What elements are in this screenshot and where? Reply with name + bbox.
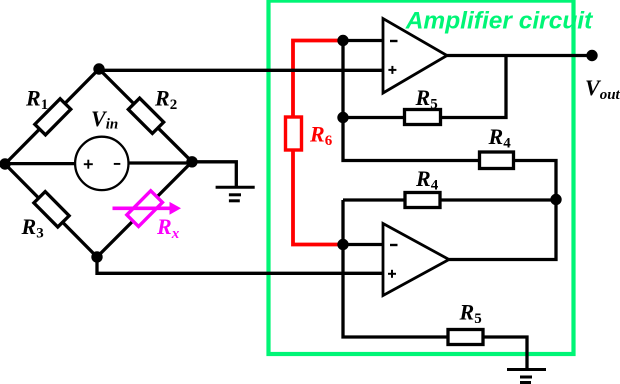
wire: lower R4 run (343, 198, 556, 201)
amplifier circuit box (green) (269, 1, 574, 354)
resistor R4 (upper) (480, 152, 514, 169)
op-amp U2 (383, 224, 449, 296)
resistor R4 (lower) (405, 193, 440, 208)
node bridge right (186, 156, 197, 167)
svg-text:Amplifier circuit: Amplifier circuit (405, 8, 593, 35)
wire: U1 inverting input (343, 39, 383, 42)
resistor R5 (bottom) (448, 330, 483, 345)
node U1 inverting (337, 35, 348, 46)
arrow of Rx (113, 207, 171, 211)
node bridge left (0, 158, 11, 169)
resistor R6 (red) (286, 117, 302, 150)
node bridge bottom (91, 251, 102, 262)
op-amp U1 (383, 19, 447, 94)
wire: U2 inverting input (343, 243, 383, 246)
node R5 tap (337, 112, 348, 123)
resistor R1 (35, 99, 71, 135)
wire: U1 output to Vout terminal (446, 54, 592, 57)
node bridge top (93, 63, 104, 74)
wire: bridge bottom node to U2 non-inverting input (97, 257, 383, 273)
resistor R5 (top) (405, 110, 441, 125)
minus sign in Vin (114, 163, 121, 165)
ground (bridge) (216, 187, 255, 201)
wire: node A vertical, to R5 and upper R4 (343, 41, 556, 200)
wire: U2 inverting branch vertical down to bottom R5 and ground (343, 200, 527, 370)
resistor Rx (magenta, variable) (127, 191, 163, 227)
wire red: R6 branch from op-amp U1 inverting node to op-amp U2 inverting node (293, 41, 343, 245)
wire: U2 output up to junction (449, 200, 556, 260)
node R4 junction (550, 194, 561, 205)
wire: right node to ground (192, 162, 236, 186)
wire: Vin source to right node (126, 161, 192, 164)
wire: R5 feedback to U1 output (343, 56, 506, 118)
node Vout terminal (586, 50, 597, 61)
node U2 inverting (337, 239, 348, 250)
resistor R2 (128, 98, 163, 133)
resistor R3 (34, 192, 69, 227)
source Vin circle (75, 137, 128, 190)
wire: left node to Vin source (5, 162, 78, 165)
plus sign in Vin (84, 160, 93, 169)
ground (bottom right) (507, 370, 546, 383)
wire: bridge top node to U1 non-inverting input (99, 69, 383, 72)
wire: bridge diamond (5, 69, 192, 257)
